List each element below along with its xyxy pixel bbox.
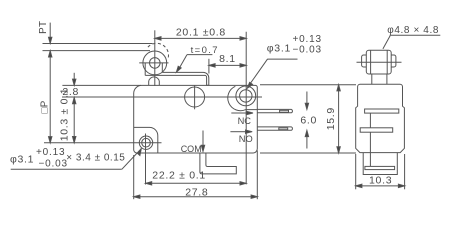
wire 22.2 left extension line	[145, 134, 147, 185]
wire inner vertical line (front view)	[369, 113, 371, 128]
wire lower hole center line	[44, 142, 162, 144]
roller inner circle (axle)	[150, 58, 161, 69]
terminal NC slot	[280, 110, 289, 112]
svg-text:−0.03: −0.03	[293, 44, 322, 55]
top-right hole outer circle (boss)	[236, 86, 256, 106]
terminal NC slot (front view)	[365, 109, 399, 113]
wire roller front center line	[357, 61, 402, 63]
wire PT upper reference line (free position)	[43, 43, 153, 45]
svg-text:15.9: 15.9	[325, 107, 337, 130]
svg-text:6.0: 6.0	[300, 115, 317, 127]
plunger button on body top	[149, 77, 160, 85]
svg-text:× 3.4 ± 0.15: × 3.4 ± 0.15	[66, 152, 125, 163]
label NC with arrow	[231, 111, 253, 126]
svg-text:10.3: 10.3	[369, 174, 392, 186]
svg-text:φ4.8 × 4.8: φ4.8 × 4.8	[387, 25, 439, 36]
label phi3.1 tolerance (top) with leader	[247, 34, 322, 88]
lever arm	[145, 72, 209, 85]
svg-text:PT: PT	[38, 21, 49, 34]
wire body top extension line (2.8 dimension)	[62, 84, 141, 86]
svg-text:φ3.1: φ3.1	[10, 154, 34, 166]
body front bottom section	[363, 153, 397, 175]
wire 27.8 left extension line	[133, 155, 135, 199]
svg-text:+0.13: +0.13	[293, 34, 322, 45]
plunger stem (front view)	[371, 74, 373, 84]
wire roller horizontal center line	[139, 62, 168, 64]
roller outer circle	[143, 51, 167, 75]
label phi3.1 tolerance x 3.4 (bottom-left) with leader	[10, 147, 141, 169]
roller free position (dashed arc)	[148, 43, 169, 59]
svg-text:□P: □P	[40, 100, 51, 113]
dimension 27.8 line with arrows	[134, 195, 258, 198]
svg-text:22.2 ± 0.1: 22.2 ± 0.1	[152, 169, 206, 181]
dimension 8.1 line with arrows	[209, 64, 246, 67]
dimension PT/OP shared vertical line with arrows	[49, 51, 52, 143]
wire 8.1 left extension line	[208, 59, 210, 74]
dimension 2.8 upper arrow	[73, 73, 76, 86]
terminal NO slot	[279, 128, 288, 130]
svg-text:NC: NC	[238, 116, 252, 126]
svg-text:27.8: 27.8	[185, 186, 208, 198]
dimension 10.3 line with arrows	[356, 184, 405, 187]
top-right boss contour	[228, 86, 258, 110]
lever bracket left edge	[144, 63, 146, 75]
terminal NO tab	[257, 127, 292, 130]
top-right hole inner circle	[240, 90, 252, 102]
lever bracket right edge	[161, 63, 163, 72]
wire holes horizontal center line	[62, 96, 262, 98]
svg-text:NO: NO	[239, 134, 253, 144]
roller axle left tab	[362, 55, 367, 67]
svg-text:φ3.1: φ3.1	[267, 42, 291, 54]
switch body outline (front view)	[356, 84, 405, 152]
bottom-left hole outer circle	[139, 136, 152, 149]
terminal NC tab	[257, 109, 292, 112]
wire right hole center extension line	[245, 32, 247, 185]
wire 15.9 bottom extension line	[260, 152, 356, 154]
dimension 20.1 line with arrows	[155, 37, 246, 40]
bottom-left hole inner circle	[142, 138, 151, 147]
wire 15.9 top extension line	[260, 84, 356, 86]
terminal COM slot (front view)	[365, 166, 395, 169]
label NO with arrow	[230, 130, 252, 144]
roller front face lines	[370, 50, 372, 74]
terminal NO slot (front view)	[360, 128, 393, 132]
wire top-middle hole vertical center line	[194, 85, 196, 109]
dimension PT arrow upper	[49, 23, 52, 44]
label COM with arrow	[181, 131, 205, 155]
dimension 15.9 vertical line with arrows	[337, 85, 340, 153]
wire 10.3 right extension line	[404, 154, 406, 189]
top-middle hole circle	[185, 87, 205, 107]
bottom-left boss contour	[134, 127, 158, 153]
svg-text:10.3 ± 0.1: 10.3 ± 0.1	[59, 88, 71, 142]
wire PT lower reference line (operating position)	[43, 50, 151, 52]
roller front view (right view)	[366, 50, 391, 74]
wire 27.8 right extension line	[256, 151, 258, 200]
wire 10.3 left extension line	[355, 154, 357, 189]
dimension 22.2 line with arrows	[146, 182, 247, 185]
svg-text:8.1: 8.1	[219, 53, 236, 65]
dimension 10.3+-0.1 vertical line with arrows	[73, 98, 76, 143]
label t=0.7 with leader	[176, 45, 219, 72]
terminal COM (L-shaped)	[200, 153, 236, 174]
roller axle right tab	[391, 55, 396, 67]
svg-text:+0.13: +0.13	[36, 147, 65, 158]
label phi4.8 x 4.8 with leader	[383, 25, 440, 49]
dimension 6.0 arrows	[305, 92, 308, 149]
svg-text:20.1 ±0.8: 20.1 ±0.8	[176, 27, 226, 39]
switch body outline (side view)	[134, 85, 258, 153]
wire roller center extension line	[154, 30, 156, 86]
svg-text:−0.03: −0.03	[39, 158, 68, 169]
